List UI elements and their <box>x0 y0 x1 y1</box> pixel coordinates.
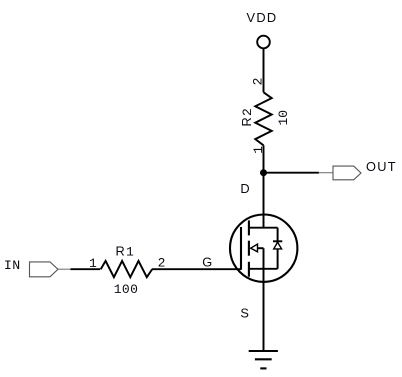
svg-text:G: G <box>202 254 212 269</box>
transistor Q1 source internal vertical <box>263 248 265 269</box>
ground bar 2 <box>255 358 272 360</box>
svg-text:VDD: VDD <box>247 10 278 25</box>
resistor R2 <box>255 92 271 145</box>
transistor Q1 source stub <box>249 268 278 270</box>
wire R1 pin 2 to gate <box>152 268 241 270</box>
wire R2 pin 1 to drain <box>263 145 265 227</box>
OUT port pin stub <box>319 172 333 174</box>
port OUT pentagon <box>333 166 361 180</box>
svg-text:OUT: OUT <box>366 159 397 174</box>
transistor Q1 body diode triangle <box>274 242 282 249</box>
port IN pentagon <box>30 262 59 277</box>
transistor Q1 drain stub <box>249 227 278 229</box>
transistor Q1 channel dash middle <box>248 241 250 256</box>
ground bar 3 <box>260 367 266 369</box>
ground bar 1 <box>249 350 278 352</box>
resistor R1 <box>101 261 153 277</box>
svg-text:1: 1 <box>89 256 97 271</box>
transistor Q1 channel dash bottom <box>248 262 250 277</box>
wire VDD circle to R2 pin 2 <box>263 49 265 92</box>
svg-text:2: 2 <box>158 255 166 270</box>
wire source to ground <box>263 269 265 351</box>
svg-text:D: D <box>240 181 249 196</box>
svg-text:S: S <box>240 305 249 320</box>
IN port pin stub <box>58 268 71 270</box>
transistor Q1 channel dash top <box>248 220 250 235</box>
junction node D <box>260 169 267 176</box>
svg-text:10: 10 <box>276 110 291 126</box>
transistor Q1 body diode cathode bar <box>273 240 282 242</box>
svg-text:100: 100 <box>114 282 139 297</box>
power terminal VDD circle <box>257 36 270 49</box>
wire IN port to R1 pin 1 <box>71 268 101 270</box>
svg-text:R2: R2 <box>239 107 255 127</box>
transistor Q1 body diode vertical <box>277 228 279 269</box>
wire node D to OUT port <box>264 172 319 174</box>
svg-text:R1: R1 <box>115 244 135 260</box>
transistor Q1 bulk arrow line <box>251 247 264 249</box>
transistor Q1 bulk arrow head <box>251 244 258 252</box>
svg-text:2: 2 <box>250 78 265 86</box>
transistor Q1 body circle <box>230 215 297 282</box>
svg-text:IN: IN <box>4 258 21 273</box>
transistor Q1 gate bar <box>240 227 242 270</box>
